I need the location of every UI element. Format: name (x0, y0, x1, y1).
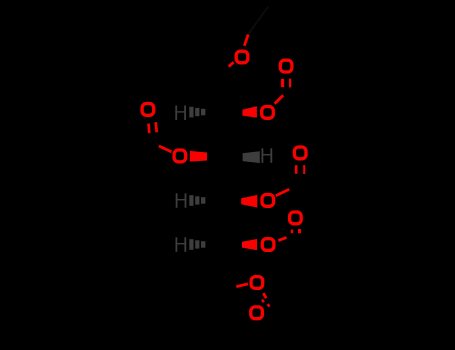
hashed wedge C4-H dash 3 (201, 197, 205, 204)
atom O top (ether O) (236, 51, 248, 63)
bond O(methyl)-C cropped, faint carbon half (248, 7, 268, 35)
atom O carbonyl acetate 1 (280, 60, 292, 72)
atom O carbonyl bottom acetate (251, 307, 263, 319)
hashed wedge C2-H dash 3 (201, 109, 205, 116)
double bond C=O acetate 3, red half line b (303, 165, 305, 174)
hashed wedge C5-H dash 3 (201, 241, 205, 248)
hashed wedge C4-H, gray dash 1 (189, 195, 193, 206)
double bond C=O acetate 2, red half line b (156, 122, 157, 132)
bold wedge C3-O, red half near O (row 2) (190, 151, 207, 162)
double bond C=O acetate 4, red half line b (298, 229, 301, 233)
bold wedge C2-O, red half near O (row 1) (242, 106, 257, 117)
atom O ester on C6 (bottom) (251, 277, 263, 289)
hashed wedge C5-H dash 2 (195, 240, 199, 248)
double bond C=O acetate 3, red half line a (295, 165, 298, 174)
double bond C=O acetate 1, red half line a (281, 79, 284, 87)
atom H on C5 (row 4) (176, 237, 187, 252)
hashed wedge C2-H dash 2 (195, 108, 199, 116)
atom O ester on C4 (262, 195, 274, 207)
atom O carbonyl acetate 3 (294, 147, 306, 159)
double bond C=O acetate 2, red half line a (147, 124, 150, 134)
double bond C=O acetate 1, red half line b (289, 79, 291, 88)
atom O ester on C5 (262, 239, 274, 251)
atom O ester on C2 (262, 107, 274, 119)
bond ester O - carbonyl C (acetate 3), red half (276, 189, 289, 196)
atom O carbonyl acetate 4 (290, 212, 302, 224)
bond ester O - carbonyl C (acetate 4), red half (278, 237, 286, 240)
bond C6-O ester (bottom acetate), red half near O (236, 284, 248, 287)
bond O(top)-C up-right, red half near O (244, 35, 248, 46)
bond carbonyl C - ester O (acetate 2), red half (159, 146, 172, 152)
atom H on C3 (row 2) (262, 148, 273, 163)
hashed wedge C2-H, gray dashes near H: dash 1 (189, 107, 193, 118)
atom H on C4 (row 3) (176, 193, 187, 208)
atom H on C2 (row 1) (175, 106, 186, 121)
double bond C=O acetate 4, red half line a (291, 230, 293, 234)
bond O(top)-C1 down-left, red half near O (229, 62, 234, 66)
double bond C=O bottom acetate, red half line a (262, 300, 264, 303)
hashed wedge C4-H dash 2 (195, 196, 199, 204)
bold wedge C5-O, red half near O (row 4) (242, 239, 257, 250)
atom O carbonyl acetate 2 (left) (142, 104, 154, 116)
atom O ester on C3 (left) (174, 150, 186, 162)
bond ester O - carbonyl C (acetate 1), red half (275, 95, 284, 104)
bold wedge C3-H, gray half near H (row 2) (243, 151, 260, 163)
double bond C=O bottom acetate, red half line b (268, 304, 270, 306)
bold wedge C4-O, red half near O (row 3) (241, 195, 257, 208)
bond ester O - carbonyl C (bottom acetate), red half (263, 293, 266, 298)
hashed wedge C5-H, gray dash 1 (189, 239, 193, 250)
